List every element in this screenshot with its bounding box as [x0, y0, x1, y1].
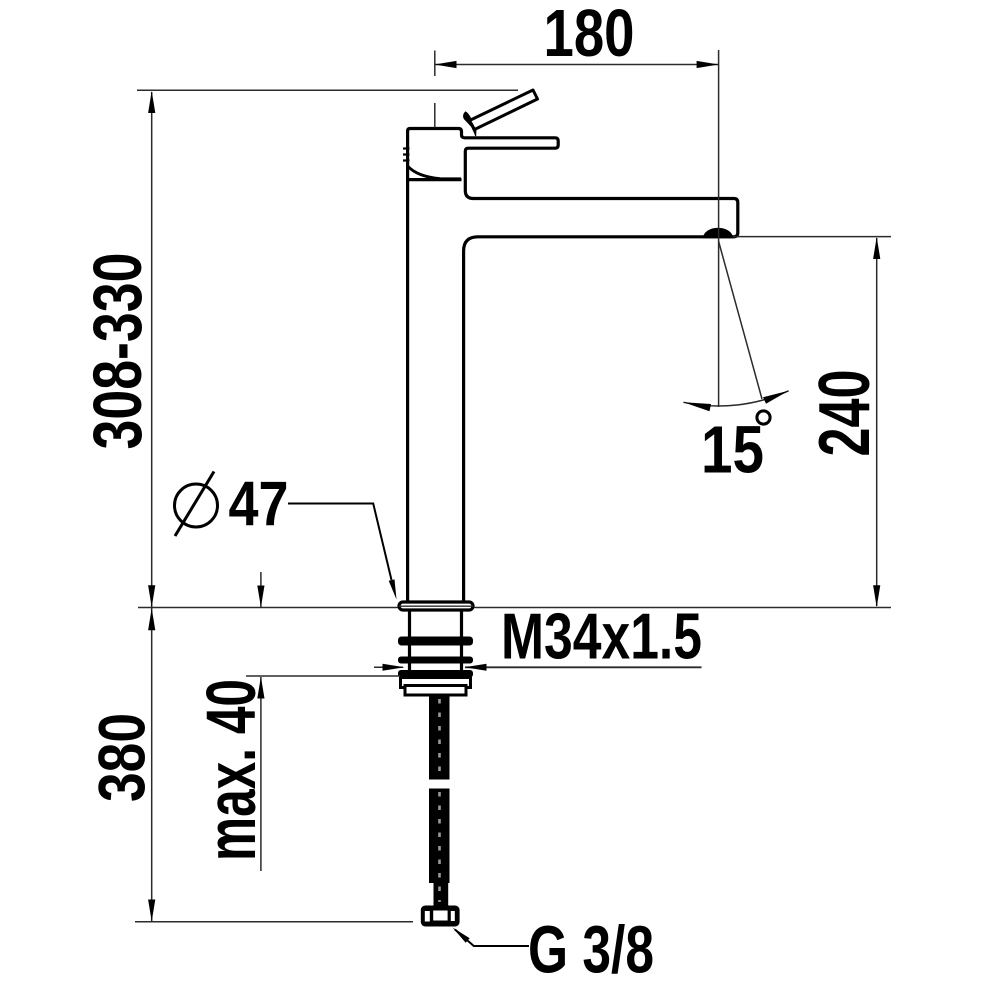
svg-text:15: 15 — [701, 413, 764, 488]
svg-text:47: 47 — [229, 470, 289, 540]
svg-text:240: 240 — [805, 370, 885, 457]
svg-text:max. 40: max. 40 — [192, 679, 270, 861]
svg-text:M34x1.5: M34x1.5 — [501, 600, 702, 673]
svg-text:180: 180 — [544, 0, 635, 71]
svg-text:G 3/8: G 3/8 — [528, 913, 654, 988]
svg-text:308-330: 308-330 — [79, 253, 156, 450]
svg-text:380: 380 — [85, 713, 159, 802]
